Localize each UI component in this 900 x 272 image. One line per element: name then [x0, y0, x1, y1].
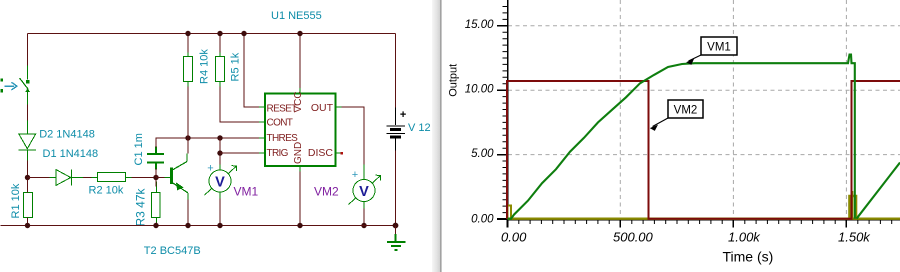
wire R1 to bottom rail [27, 218, 29, 226]
wire base node to T2 base [156, 177, 165, 179]
svg-text:VM2: VM2 [674, 105, 698, 117]
wire rail right drop to battery [395, 34, 397, 108]
pin TRIG stub [259, 152, 265, 154]
resistor R5 [216, 53, 225, 87]
svg-text:DISC: DISC [308, 147, 334, 159]
wire left branch upper (rail to switch) [27, 34, 29, 66]
resistor R2 [92, 173, 132, 182]
gridline x 1k [732, 0, 734, 219]
svg-text:0.00: 0.00 [471, 213, 494, 225]
node R3 rail junction [153, 223, 158, 228]
node R4 rail junction [185, 31, 190, 36]
wire VM2 bottom to rail [363, 202, 365, 209]
gridline y 15 [508, 25, 900, 27]
IC U1 NE555 box [265, 94, 336, 167]
wire battery to bottom rail [395, 151, 397, 226]
svg-text:0.00: 0.00 [501, 230, 527, 245]
wire rail to R4 [187, 34, 189, 53]
svg-text:15.00: 15.00 [465, 19, 494, 31]
svg-text:+: + [400, 109, 406, 121]
wire TRIG net [220, 152, 259, 154]
wire node A to D1 [28, 177, 50, 179]
wire VCC to rail [299, 34, 301, 89]
svg-text:VM1: VM1 [707, 42, 731, 54]
node emitter rail junction [185, 223, 190, 228]
svg-text:CONT: CONT [267, 117, 293, 128]
svg-text:U1 NE555: U1 NE555 [271, 10, 322, 22]
wire switch to D2 [27, 105, 29, 121]
svg-text:R1 10k: R1 10k [10, 183, 22, 218]
trace trigger (olive) [508, 217, 900, 219]
pin GND stub [299, 166, 301, 172]
gridline x 1.5k [845, 0, 847, 219]
wire C1 top to THRES net corner [156, 138, 181, 148]
resistor R4 [184, 53, 193, 87]
node VM2 rail junction [361, 223, 366, 228]
ground symbol [387, 226, 405, 250]
panel divider [432, 0, 441, 272]
node R1 rail junction [25, 223, 30, 228]
svg-text:OUT: OUT [311, 102, 334, 114]
wire THRES net (to pin) [181, 137, 260, 139]
capacitor C1 [147, 147, 164, 170]
y axis minor ticks [503, 7, 508, 213]
svg-text:V: V [359, 184, 369, 200]
wire node A to R1 [27, 180, 29, 193]
node RESET rail junction [241, 31, 246, 36]
gridline y 5 [508, 154, 900, 156]
wire C1 bottom to base node [155, 169, 157, 178]
svg-text:+: + [352, 169, 358, 181]
svg-text:D2 1N4148: D2 1N4148 [39, 129, 95, 141]
node base junction [153, 175, 158, 180]
pin CONT stub [259, 121, 265, 123]
wire RESET net [244, 34, 259, 107]
svg-text:R2 10k: R2 10k [89, 185, 124, 197]
wire D2 to node A [27, 161, 29, 178]
resistor R3 [152, 182, 161, 224]
node GND rail junction [297, 223, 302, 228]
voltmeter VM1 [205, 163, 237, 196]
callout box VM2 [650, 100, 703, 131]
svg-text:R5 1k: R5 1k [230, 52, 242, 81]
pin VCC stub [299, 88, 301, 94]
svg-text:R3 47k: R3 47k [134, 187, 148, 226]
gridline x 500 [619, 0, 621, 219]
wire top rail VCC net [28, 33, 396, 35]
diode D1 [50, 170, 83, 186]
x axis major ticks [508, 220, 847, 228]
wire GND to bottom rail [299, 172, 301, 226]
diode D2 [19, 121, 37, 161]
svg-text:Output: Output [448, 64, 460, 97]
node battery rail junction [393, 223, 399, 229]
svg-text:V 12: V 12 [408, 122, 431, 134]
svg-text:D1 1N4148: D1 1N4148 [43, 148, 99, 160]
voltmeter VM2 [349, 169, 381, 205]
wire VM1 bottom to rail [219, 192, 221, 199]
wire D1 to R2 [83, 177, 98, 179]
node TRIG junction [217, 150, 222, 155]
pin RESET stub [259, 106, 265, 108]
wire VM2 top lead [363, 165, 365, 180]
wire rail to R5 [219, 34, 221, 53]
svg-text:VCC: VCC [293, 91, 304, 112]
svg-text:V: V [215, 174, 225, 190]
wire VM1 top lead [219, 165, 221, 171]
wire emitter to bottom rail [187, 200, 189, 226]
node THRES-R4-collector junction [185, 135, 190, 140]
pin DISC stub [336, 152, 342, 154]
CHART-LAYER [432, 0, 900, 272]
svg-text:1.00k: 1.00k [728, 230, 761, 245]
svg-text:1.50k: 1.50k [838, 230, 871, 245]
svg-text:+: + [207, 163, 213, 175]
battery V1 [387, 108, 407, 151]
svg-text:C1 1m: C1 1m [133, 133, 145, 165]
trace VM1 (green) [508, 55, 900, 219]
svg-text:Time (s): Time (s) [723, 249, 774, 265]
y axis major ticks [497, 26, 508, 219]
node THRES-VM1 junction [217, 135, 222, 140]
callout box VM1 [686, 37, 737, 65]
x axis minor ticks [519, 220, 892, 224]
switch actuator arrow [1, 79, 17, 93]
node VM1 rail junction [217, 223, 222, 228]
wire THRES junction down to VM1 [219, 138, 221, 165]
svg-text:500.00: 500.00 [613, 230, 654, 245]
node R5 rail junction [217, 31, 222, 36]
y axis line [507, 0, 509, 220]
wire R5 to CONT pin [220, 87, 259, 123]
x axis line [508, 219, 900, 221]
node VCC rail junction [297, 31, 302, 36]
switch SW1 [20, 66, 31, 105]
wire R2 to base node [132, 177, 157, 179]
wire bottom rail GND net [1, 225, 396, 227]
svg-text:5.00: 5.00 [471, 148, 494, 160]
svg-text:TRIG: TRIG [267, 148, 289, 159]
pin THRES stub [259, 137, 265, 139]
pin OUT stub [336, 106, 342, 108]
resistor R1 [23, 189, 32, 224]
wire R3 to bottom rail [156, 223, 158, 226]
transistor T2 [172, 154, 188, 200]
wire R4 to THRES net [187, 87, 189, 139]
svg-text:T2 BC547B: T2 BC547B [144, 245, 201, 257]
svg-text:VM2: VM2 [314, 185, 339, 199]
pin DISC open end mark [340, 152, 343, 155]
svg-text:GND: GND [293, 142, 304, 164]
svg-text:VM1: VM1 [234, 185, 259, 199]
svg-text:R4 10k: R4 10k [199, 49, 211, 84]
wire base node to R3 [155, 180, 157, 187]
node A junction [25, 175, 30, 180]
gridline y 10 [508, 89, 900, 91]
trace VM2 (dark red) [507, 81, 900, 219]
SCHEMATIC-LAYER [1, 10, 431, 257]
wire collector to THRES junction [187, 138, 189, 154]
wire OUT to VM2 [342, 107, 365, 165]
svg-text:10.00: 10.00 [465, 84, 494, 96]
